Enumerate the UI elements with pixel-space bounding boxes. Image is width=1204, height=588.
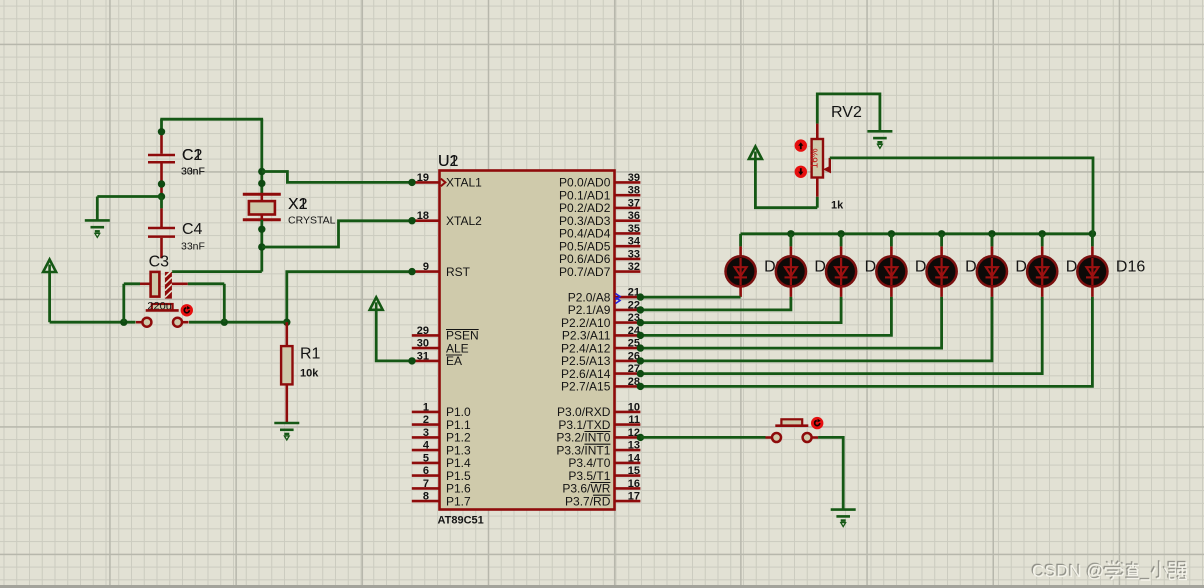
wire RV2 bottom lead (816, 178, 819, 197)
node pin19 (408, 179, 415, 186)
svg-text:16%: 16% (809, 148, 820, 168)
node pin P2.7 (637, 383, 644, 390)
svg-text:C3: C3 (149, 254, 170, 271)
ground symbol INT0 button (831, 510, 856, 521)
pin 9 RST left stub (412, 270, 440, 273)
pin 16 P3.6/WR right stub (615, 487, 641, 490)
node junction crystal bottom a (258, 226, 265, 233)
wire C3 right lead (172, 282, 188, 285)
node bus junction D15 (1039, 230, 1046, 237)
svg-text:3: 3 (423, 427, 429, 439)
node bus junction D10 (787, 230, 794, 237)
resistor R1 body (281, 346, 292, 384)
pin 24 P2.3/A11 right stub (615, 334, 641, 337)
wire C3 right green (188, 282, 225, 285)
LED D15 (1027, 234, 1057, 297)
svg-text:5: 5 (423, 452, 429, 464)
svg-text:37: 37 (628, 197, 640, 209)
pin 10 P3.0/RXD right stub (615, 411, 641, 414)
interactive marker RV2 up (795, 139, 807, 151)
wire LED anode bus (741, 232, 1094, 235)
node junction C3 left column (120, 319, 127, 326)
node P2.0 blue state marker (616, 294, 621, 304)
node junction C2 top (158, 128, 165, 135)
power terminal left reset (43, 260, 56, 273)
svg-text:XTAL2: XTAL2 (446, 214, 482, 228)
wire reset row left segment (50, 321, 136, 324)
svg-text:P0.7/AD7: P0.7/AD7 (559, 265, 611, 279)
node pin P2.3 (637, 332, 644, 339)
node bus junction D12 (888, 230, 895, 237)
wire LED D16 cathode to P2.7 (640, 297, 1092, 387)
pin 39 P0.0/AD0 right stub (615, 181, 641, 184)
svg-text:9: 9 (423, 261, 429, 273)
svg-text:XTAL1: XTAL1 (446, 176, 482, 190)
node pin31 (408, 357, 415, 364)
pin 18 XTAL2 left stub (412, 219, 440, 222)
crystal X1/X2 (243, 194, 281, 220)
pin 1 P1.0 left stub (412, 411, 440, 414)
LED D10 (776, 234, 806, 297)
potentiometer RV2 body (812, 139, 823, 178)
power terminal EA (370, 297, 383, 310)
svg-text:31: 31 (417, 350, 429, 362)
op-amp U2 microcontroller AT89C51 body (440, 171, 615, 510)
wire RST to reset node (287, 272, 412, 323)
pin 29 PSEN left stub (412, 334, 440, 337)
svg-text:6: 6 (423, 465, 429, 477)
node junction crystal bottom b (258, 243, 265, 250)
pin 26 P2.5/A13 right stub (615, 360, 641, 363)
node junction C3 right column (221, 319, 228, 326)
node pin P2.4 (637, 344, 644, 351)
svg-text:AT89C51: AT89C51 (438, 515, 484, 527)
svg-text:10: 10 (628, 401, 640, 413)
pin 35 P0.4/AD4 right stub (615, 232, 641, 235)
svg-text:C1: C1 (182, 147, 203, 164)
node bus junction D14 (988, 230, 995, 237)
node bus junction D11 (837, 230, 844, 237)
pin 22 P2.1/A9 right stub (615, 309, 641, 312)
LED D14 (977, 234, 1007, 297)
wire C3 left drop (122, 284, 125, 322)
pin 17 P3.7/RD right stub (615, 500, 641, 503)
wire C2 top pin (160, 132, 163, 154)
pin 6 P1.5 left stub (412, 474, 440, 477)
node junction C1/C2 bottom a (158, 180, 165, 187)
LED D12 (876, 234, 906, 297)
pin 11 P3.1/TXD right stub (615, 423, 641, 426)
svg-text:4: 4 (423, 440, 430, 452)
svg-text:30nF: 30nF (181, 166, 205, 178)
push button INT0 (766, 419, 819, 442)
svg-text:D16: D16 (1116, 258, 1145, 275)
bottom window edge strip (0, 585, 1204, 588)
svg-text:33nF: 33nF (181, 241, 205, 253)
node pin P2.2 (637, 319, 644, 326)
pin 37 P0.2/AD2 right stub (615, 207, 641, 210)
node junction crystal top a (258, 168, 265, 175)
pin 34 P0.5/AD5 right stub (615, 245, 641, 248)
svg-text:X1: X1 (288, 196, 308, 213)
svg-text:11: 11 (628, 414, 640, 426)
wire RV2 power arrow to bottom (755, 159, 817, 208)
pin XTAL1 clock notch (441, 179, 446, 187)
svg-text:16: 16 (628, 478, 640, 490)
wire EA power to pin 31 (376, 310, 412, 361)
pin 25 P2.4/A12 right stub (615, 347, 641, 350)
pin 12 P3.2/INT0 right stub (615, 436, 641, 439)
wire crystal column to C3 plate (171, 270, 261, 273)
ground symbol below R1 (274, 423, 299, 434)
wire RV2 bottom green (816, 197, 819, 208)
node pin P2.0 (637, 293, 644, 300)
svg-text:18: 18 (417, 210, 429, 222)
node bus junction D16 (1089, 230, 1096, 237)
pin 19 XTAL1 left stub (412, 181, 440, 184)
pin 5 P1.4 left stub (412, 462, 440, 465)
capacitor C3 electrolytic plates (151, 271, 172, 299)
interactive marker RV2 down (795, 166, 807, 178)
wire C2-C4 green link (160, 197, 163, 209)
wire R1 top lead (285, 322, 288, 346)
pin 33 P0.6/AD6 right stub (615, 258, 641, 261)
wire crystal to XTAL2 jog (262, 221, 412, 247)
svg-text:1: 1 (423, 401, 429, 413)
ground symbol left oscillator (85, 220, 110, 231)
node pin P2.5 (637, 357, 644, 364)
interactive marker INT0 button (811, 417, 823, 429)
pin 4 P1.3 left stub (412, 449, 440, 452)
wire crystal to XTAL1 jog (262, 172, 412, 183)
wire C2 bottom lead (160, 164, 163, 197)
LED D16 (1077, 234, 1107, 297)
svg-text:15: 15 (628, 465, 640, 477)
capacitor C2 plates (148, 155, 175, 162)
power terminal RV2 (749, 147, 762, 160)
wire C3 left lead (140, 282, 151, 285)
wire C3 right drop (223, 284, 226, 322)
wire R1 bottom lead (285, 384, 288, 423)
svg-text:19: 19 (417, 172, 429, 184)
interactive marker reset button (181, 304, 193, 316)
svg-text:30: 30 (417, 338, 429, 350)
svg-text:13: 13 (628, 440, 640, 452)
wire RV2 top to ground (817, 94, 880, 131)
pin 2 P1.1 left stub (412, 423, 440, 426)
node pin P2.1 (637, 306, 644, 313)
wire LED D13 cathode to P2.4 (640, 297, 941, 348)
pin 15 P3.5/T1 right stub (615, 474, 641, 477)
pin 14 P3.4/T0 right stub (615, 462, 641, 465)
capacitor C4 plates (148, 228, 175, 237)
svg-text:CRYSTAL: CRYSTAL (288, 215, 336, 227)
wire C3 left green (124, 282, 140, 285)
pin 27 P2.6/A14 right stub (615, 372, 641, 375)
wire LED D15 cathode to P2.6 (640, 297, 1042, 374)
pin 32 P0.7/AD7 right stub (615, 270, 641, 273)
svg-text:U1: U1 (438, 153, 459, 170)
wire LED D9 cathode to P2.0 (640, 296, 740, 299)
node pin18 (408, 217, 415, 224)
node pin P2.6 (637, 370, 644, 377)
ground symbol RV2 (867, 131, 892, 142)
svg-text:2: 2 (423, 414, 429, 426)
wire power arrow stem left (48, 272, 51, 322)
svg-text:P1.7: P1.7 (446, 494, 471, 508)
svg-text:10k: 10k (300, 368, 319, 380)
push button reset (136, 304, 189, 327)
wire P3.2 to button (640, 436, 765, 439)
wire LED D12 cathode to P2.3 (640, 297, 891, 336)
pin 7 P1.6 left stub (412, 487, 440, 490)
wire crystal top column (260, 119, 263, 194)
LED D9 (726, 234, 756, 297)
wire cap C2 top lead vertical (160, 119, 163, 134)
pin 38 P0.1/AD1 right stub (615, 194, 641, 197)
node junction C1/C2 bottom b (158, 193, 165, 200)
node junction crystal top b (258, 180, 265, 187)
wire button to ground (818, 437, 843, 509)
svg-text:29: 29 (417, 325, 429, 337)
svg-text:R1: R1 (300, 346, 321, 363)
svg-text:P2.7/A15: P2.7/A15 (561, 380, 611, 394)
node junction reset row at R1 (283, 319, 290, 326)
pin 28 P2.7/A15 right stub (615, 385, 641, 388)
pin 8 P1.7 left stub (412, 500, 440, 503)
pin 36 P0.3/AD3 right stub (615, 219, 641, 222)
svg-text:C4: C4 (182, 221, 203, 238)
svg-text:32: 32 (628, 261, 640, 273)
svg-text:33: 33 (628, 248, 640, 260)
node pin12 P3.2 (637, 434, 644, 441)
LED D11 (826, 234, 856, 297)
wire XTAL top net horizontal (160, 118, 263, 121)
wire LED D11 cathode to P2.2 (640, 297, 841, 323)
wire C4 top lead (160, 208, 163, 227)
RV2 wiper arrow (823, 158, 831, 174)
pin 13 P3.3/INT1 right stub (615, 449, 641, 452)
svg-text:8: 8 (423, 491, 429, 503)
svg-text:17: 17 (628, 491, 640, 503)
svg-text:RST: RST (446, 265, 471, 279)
wire LED D14 cathode to P2.5 (640, 297, 992, 361)
wire reset row right segment (189, 321, 287, 324)
wire LED D10 cathode to P2.1 (640, 297, 791, 310)
svg-text:RV2: RV2 (831, 104, 862, 121)
svg-text:34: 34 (628, 236, 641, 248)
wire ground drop (96, 197, 99, 221)
wire RV2 wiper to LED bus (830, 158, 1093, 234)
pin 23 P2.2/A10 right stub (615, 321, 641, 324)
pin 21 P2.0/A8 right stub (615, 296, 641, 299)
wire RV2 top lead (816, 124, 819, 139)
svg-text:39: 39 (628, 172, 640, 184)
pin 31 EA left stub (412, 360, 440, 363)
svg-text:14: 14 (628, 452, 641, 464)
node pin9 (408, 268, 415, 275)
svg-text:38: 38 (628, 185, 640, 197)
svg-text:7: 7 (423, 478, 429, 490)
svg-text:P3.7/RD: P3.7/RD (565, 494, 611, 508)
svg-text:1k: 1k (831, 200, 844, 212)
node bus junction D13 (938, 230, 945, 237)
wire crystal bottom column (260, 220, 263, 272)
pin 30 ALE left stub (412, 347, 440, 350)
wire to ground left (97, 195, 161, 198)
pin 3 P1.2 left stub (412, 436, 440, 439)
svg-text:CSDN @: CSDN @ (1032, 561, 1104, 581)
svg-text:36: 36 (628, 210, 640, 222)
LED D13 (927, 234, 957, 297)
svg-text:EA: EA (446, 354, 462, 368)
wire C4 bottom lead (160, 238, 163, 258)
svg-text:35: 35 (628, 223, 640, 235)
